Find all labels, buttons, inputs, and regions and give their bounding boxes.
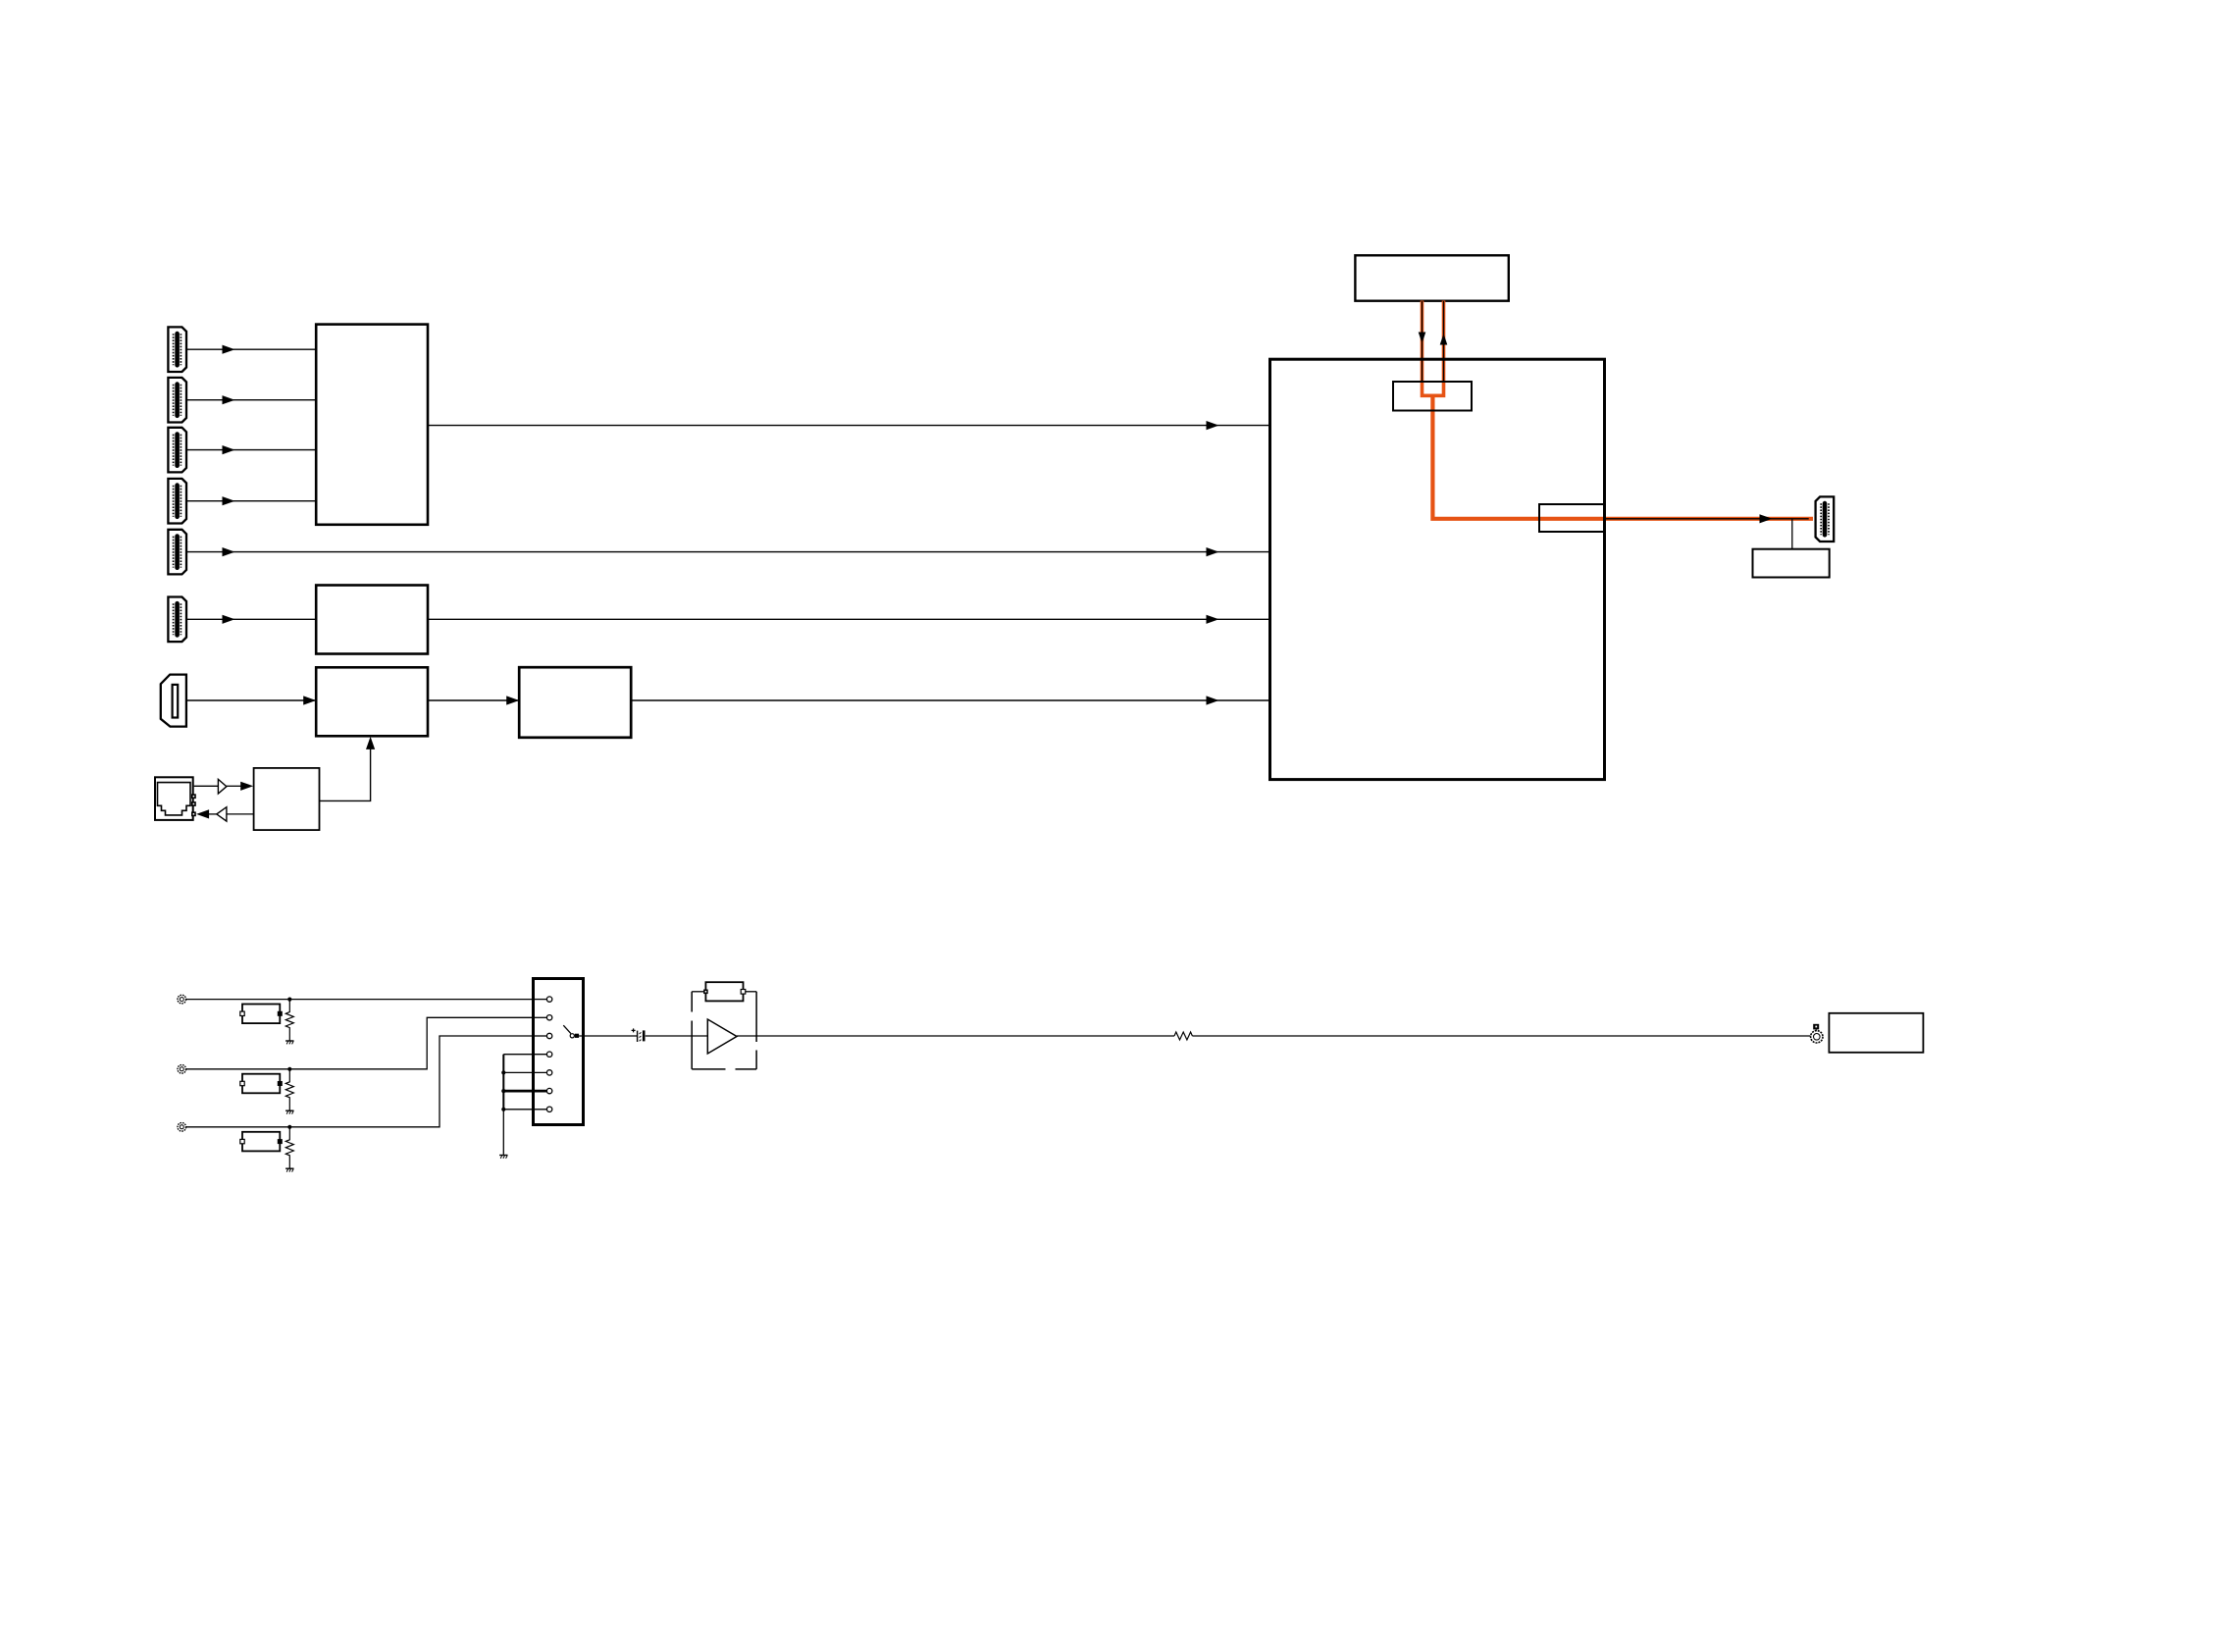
block U10 xyxy=(1753,549,1830,578)
wire J6 to U6 via U2 xyxy=(187,618,1270,620)
orange video path to J9 xyxy=(1432,394,1813,519)
block U7 DDR memory xyxy=(1355,255,1508,300)
wire R5 to J10 xyxy=(1192,1035,1810,1037)
block U3 HDMI receiver xyxy=(316,667,428,736)
wire J4 to U1 xyxy=(187,500,316,502)
pin 2 xyxy=(534,1016,547,1018)
wire U3 to U4 xyxy=(428,699,519,701)
node N6 xyxy=(501,1108,505,1111)
op-amp A1 headphone amp xyxy=(707,1019,737,1054)
block U1 HDMI switch xyxy=(316,325,428,525)
connector J3 HDMI input 3 xyxy=(168,428,186,473)
ground G3 xyxy=(285,1168,293,1171)
buffer A2 xyxy=(218,779,227,794)
pin 7 xyxy=(503,1109,546,1110)
ground G4 xyxy=(499,1156,507,1159)
wire ground bus xyxy=(502,1055,504,1110)
node N2 xyxy=(287,1067,291,1071)
ground G2 xyxy=(285,1110,293,1113)
wire J2 to U1 xyxy=(187,399,316,401)
node N3 xyxy=(287,1125,291,1129)
block U5 level shifter xyxy=(254,768,320,830)
wire U5 RX to J8 xyxy=(227,813,254,815)
connector J8 service jack RJ45 xyxy=(155,777,196,820)
wire SW1 to C1 xyxy=(579,1035,637,1037)
connector J9 output xyxy=(1816,496,1835,542)
resistor R2 xyxy=(285,1069,293,1110)
dashed enclosure U12 xyxy=(692,992,756,1069)
block U8 memory interface xyxy=(1393,382,1472,411)
wire J7 to U3 xyxy=(186,699,316,701)
block U6 main SoC xyxy=(1270,359,1605,779)
capacitor C1 coupling xyxy=(632,1028,646,1042)
resistor R4 feedback xyxy=(692,982,756,1001)
capacitor C4 filter xyxy=(240,1132,283,1152)
capacitor C3 filter xyxy=(240,1074,283,1094)
resistor R1 xyxy=(285,1000,293,1041)
terminal T1 audio L xyxy=(178,995,186,1004)
block U4 format converter xyxy=(519,667,631,738)
pin 4 xyxy=(503,1054,546,1056)
pin 1 xyxy=(534,999,547,1001)
wire T2 to SW1 pin2 xyxy=(186,1017,547,1069)
wire U5 to U3 xyxy=(320,739,371,800)
wire T3 to SW1 pin3 xyxy=(186,1036,547,1127)
switch SW1 selector xyxy=(534,979,584,1125)
wire DDR up-link xyxy=(1443,301,1445,382)
terminal T2 audio R xyxy=(178,1065,186,1074)
wire J9 stub to U10 xyxy=(1791,519,1793,549)
connector J7 HDMI side-entry xyxy=(161,675,186,727)
wire T1 to SW1 pin1 xyxy=(186,999,547,1001)
connector J2 HDMI input 2 xyxy=(168,378,186,423)
connector J1 HDMI input 1 xyxy=(168,327,186,372)
wire U1 output to U6 xyxy=(428,425,1270,427)
block U9 output interface xyxy=(1539,504,1605,532)
node N1 xyxy=(287,998,291,1002)
wire J5 to U6 xyxy=(187,551,1270,553)
buffer A3 xyxy=(217,807,227,821)
connector J4 HDMI input 4 xyxy=(168,479,186,524)
wire A1 output xyxy=(737,1035,1174,1037)
terminal T3 audio C xyxy=(178,1123,186,1132)
pin 6 xyxy=(503,1090,546,1093)
connector J5 HDMI input 5 xyxy=(168,530,186,575)
wire DDR down-link xyxy=(1422,301,1423,382)
pin 3 xyxy=(534,1035,547,1037)
capacitor C2 filter xyxy=(240,1005,283,1024)
switch lever xyxy=(563,1025,571,1033)
jack J10 headphone xyxy=(1811,1024,1823,1043)
wire J8 TX to U5 xyxy=(194,785,219,787)
block U13 headphone board xyxy=(1829,1013,1923,1053)
wire J3 to U1 xyxy=(187,449,316,451)
resistor R5 series xyxy=(1174,1032,1192,1040)
orange bus U-loop xyxy=(1423,301,1444,396)
connector J6 HDMI input 6 xyxy=(168,597,186,643)
wire J1 to U1 xyxy=(187,348,316,350)
wire U6 to J9 xyxy=(1605,518,1809,520)
wire C1 to A1 xyxy=(646,1035,708,1037)
wire U4 to U6 xyxy=(631,699,1269,701)
node N5 xyxy=(501,1089,505,1093)
ground G1 xyxy=(285,1041,293,1044)
resistor R3 xyxy=(285,1127,293,1168)
node N4 xyxy=(501,1070,505,1074)
block U2 receiver xyxy=(316,586,428,654)
pin 5 xyxy=(503,1071,546,1073)
